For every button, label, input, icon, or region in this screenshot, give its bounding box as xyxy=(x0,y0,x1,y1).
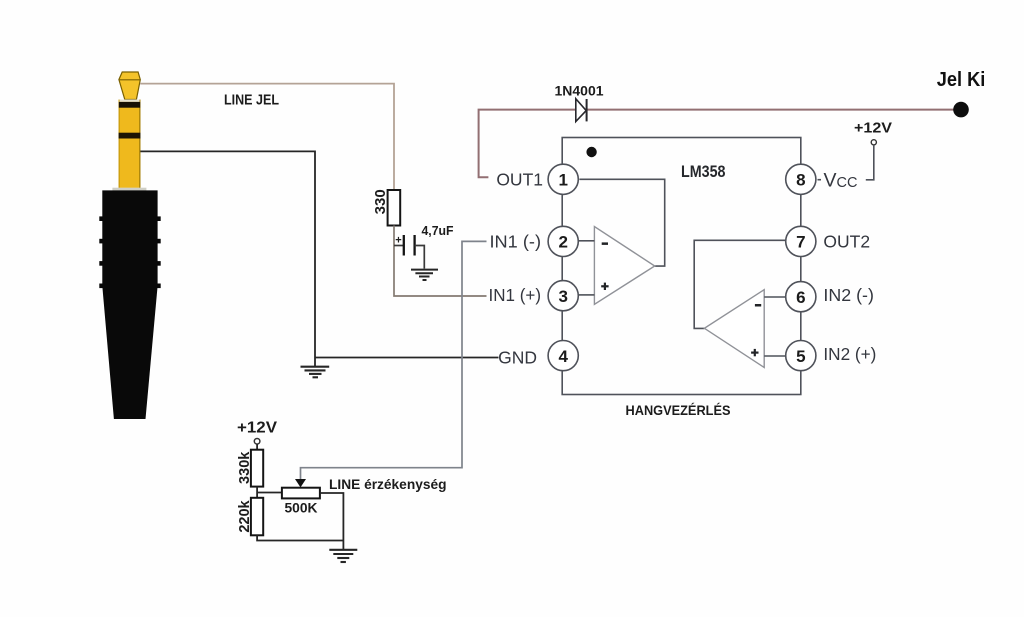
IC U1 LM358 body xyxy=(562,138,801,395)
svg-text:220k: 220k xyxy=(237,499,253,532)
terminal +12V circle VCC xyxy=(871,140,876,145)
svg-text:7: 7 xyxy=(796,233,805,252)
pin 7 xyxy=(786,226,816,256)
ground symbol capacitor xyxy=(411,270,438,280)
pin 4 xyxy=(548,341,578,371)
wire GND branch to pin 4 label xyxy=(315,357,499,359)
svg-text:LINE érzékenység: LINE érzékenység xyxy=(329,476,447,492)
jack body rib 3 xyxy=(99,261,160,266)
diode D1 1N4001 xyxy=(576,99,587,122)
svg-text:8: 8 xyxy=(796,171,805,190)
svg-text:OUT1: OUT1 xyxy=(496,169,543,189)
wire R1 to IN1(+) xyxy=(394,226,487,297)
svg-text:OUT2: OUT2 xyxy=(823,231,870,251)
jack body rib 4 xyxy=(99,284,160,289)
capacitor C1 4,7uF xyxy=(394,235,415,256)
red output wire OUT1 to Jel Ki xyxy=(479,110,961,178)
wire R2/R3 node to potentiometer xyxy=(257,492,282,494)
pin 1 xyxy=(548,164,578,194)
wire C1 to ground xyxy=(415,246,425,269)
pin 6 xyxy=(786,282,816,312)
wire potentiometer right to ground xyxy=(320,493,344,550)
pin 8 xyxy=(786,164,816,194)
jack black ring 2 xyxy=(119,133,141,139)
jack shaft edge shading xyxy=(119,100,140,188)
jack body rib 2 xyxy=(99,239,160,244)
jack gold shaft xyxy=(119,100,141,188)
jack base plate xyxy=(112,188,146,191)
svg-text:LM358: LM358 xyxy=(681,162,726,181)
node Jel Ki dot xyxy=(953,102,969,118)
op-amp U1B xyxy=(704,290,764,368)
ground symbol jack xyxy=(301,367,330,378)
svg-text:IN2 (-): IN2 (-) xyxy=(823,285,874,305)
svg-text:4: 4 xyxy=(558,347,568,366)
pin 2 xyxy=(548,226,578,256)
audio jack plug J1 tip xyxy=(119,72,140,100)
wire LINE JEL from tip to R330 xyxy=(140,84,394,190)
svg-text:4,7uF: 4,7uF xyxy=(422,223,454,238)
wire R2 to R3 xyxy=(256,487,258,498)
wire +12V to R2 xyxy=(256,444,258,450)
op-amp U1A feedback wire pin1 to output xyxy=(579,179,664,266)
svg-text:IN2 (+): IN2 (+) xyxy=(823,344,876,364)
svg-text:Jel Ki: Jel Ki xyxy=(937,69,986,91)
svg-text:LINE JEL: LINE JEL xyxy=(224,92,279,109)
wire pin8 tick xyxy=(818,179,822,181)
resistor R1 330 xyxy=(388,190,401,226)
svg-text:IN1 (+): IN1 (+) xyxy=(489,285,542,305)
wire pin6 to U1B inverting input xyxy=(764,296,786,298)
terminal +12V circle xyxy=(254,439,260,445)
jack body rib 1 xyxy=(99,216,160,221)
svg-text:+: + xyxy=(395,235,401,247)
svg-text:3: 3 xyxy=(558,287,567,306)
wire +12V to VCC xyxy=(866,145,874,180)
svg-text:GND: GND xyxy=(498,347,537,367)
svg-text:+12V: +12V xyxy=(854,120,892,137)
op-amp U1B output wire to pin7 xyxy=(694,240,786,328)
wire IN1(-) to potentiometer wiper xyxy=(301,241,487,479)
potentiometer P1 500K body xyxy=(282,488,320,499)
svg-text:500K: 500K xyxy=(285,500,318,516)
resistor R2 330k xyxy=(251,450,263,487)
svg-text:6: 6 xyxy=(796,288,805,307)
jack black ring 1 xyxy=(119,102,140,108)
op-amp U1A xyxy=(594,227,654,305)
wire pin2 to U1A inverting input xyxy=(579,240,595,242)
pin 5 xyxy=(786,341,816,371)
jack body xyxy=(102,190,157,419)
svg-text:5: 5 xyxy=(796,347,805,366)
svg-text:IN1 (-): IN1 (-) xyxy=(490,231,542,251)
wire R3 bottom to ground node xyxy=(257,535,343,540)
wire jack sleeve to ground xyxy=(140,151,315,366)
jack tip separator band xyxy=(120,100,140,102)
svg-text:+12V: +12V xyxy=(237,420,277,437)
pin 3 xyxy=(548,281,578,311)
svg-text:HANGVEZÉRLÉS: HANGVEZÉRLÉS xyxy=(626,402,731,418)
IC pin1 marker dot xyxy=(586,147,596,157)
svg-text:1: 1 xyxy=(558,171,567,190)
svg-text:2: 2 xyxy=(558,233,567,252)
resistor R3 220k xyxy=(251,498,263,536)
potentiometer wiper arrow xyxy=(295,479,306,487)
svg-text:1N4001: 1N4001 xyxy=(554,83,603,99)
wire pin3 to U1A non-inverting input xyxy=(579,294,595,296)
ground symbol potentiometer xyxy=(329,550,357,562)
wire pin5 to U1B non-inverting input xyxy=(764,355,786,357)
svg-text:330: 330 xyxy=(372,189,389,214)
svg-text:330k: 330k xyxy=(237,451,253,484)
